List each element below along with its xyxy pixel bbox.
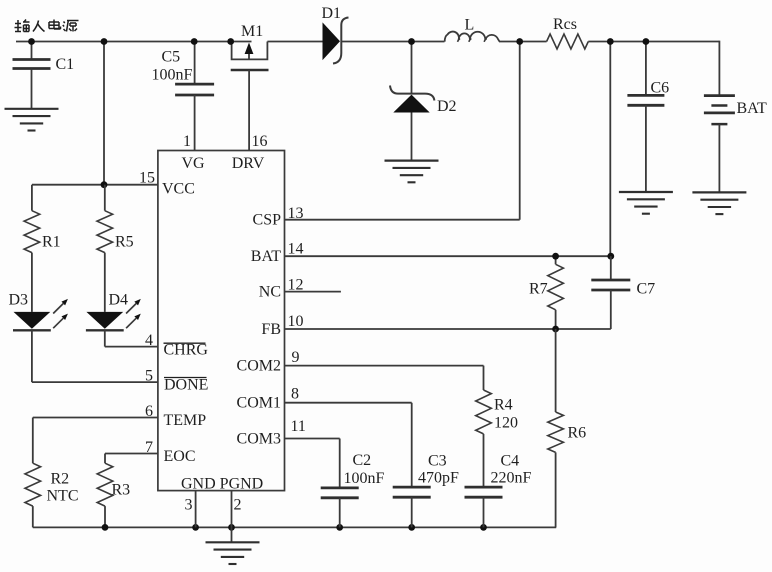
svg-text:16: 16 xyxy=(252,133,268,150)
svg-text:D2: D2 xyxy=(437,98,457,115)
svg-text:10: 10 xyxy=(288,313,304,330)
svg-text:11: 11 xyxy=(291,418,306,435)
svg-text:100nF: 100nF xyxy=(152,67,193,84)
svg-text:100nF: 100nF xyxy=(344,470,385,487)
svg-text:R3: R3 xyxy=(112,482,131,499)
svg-text:BAT: BAT xyxy=(251,248,281,265)
svg-text:8: 8 xyxy=(291,386,299,403)
svg-text:COM2: COM2 xyxy=(237,357,281,374)
svg-text:D3: D3 xyxy=(9,292,29,309)
svg-text:1: 1 xyxy=(183,133,191,150)
svg-text:VCC: VCC xyxy=(162,181,195,198)
svg-text:R4: R4 xyxy=(494,397,513,414)
svg-text:120: 120 xyxy=(494,415,518,432)
svg-text:NC: NC xyxy=(259,283,281,300)
svg-text:3: 3 xyxy=(185,497,193,514)
svg-text:R5: R5 xyxy=(115,234,134,251)
svg-text:220nF: 220nF xyxy=(491,470,532,487)
svg-text:D4: D4 xyxy=(109,292,129,309)
svg-text:R6: R6 xyxy=(568,425,587,442)
svg-text:C4: C4 xyxy=(501,453,520,470)
svg-text:C7: C7 xyxy=(637,281,656,298)
svg-text:R1: R1 xyxy=(42,234,61,251)
svg-text:D1: D1 xyxy=(322,5,342,22)
svg-text:VG: VG xyxy=(181,155,205,172)
svg-text:R7: R7 xyxy=(529,281,548,298)
svg-text:TEMP: TEMP xyxy=(164,412,207,429)
svg-text:DRV: DRV xyxy=(232,155,265,172)
svg-text:EOC: EOC xyxy=(164,448,196,465)
svg-text:COM3: COM3 xyxy=(237,430,281,447)
svg-text:NTC: NTC xyxy=(47,488,79,505)
svg-text:M1: M1 xyxy=(241,23,263,40)
svg-text:9: 9 xyxy=(292,349,300,366)
svg-text:L: L xyxy=(465,17,475,34)
svg-text:COM1: COM1 xyxy=(237,395,281,412)
svg-text:C2: C2 xyxy=(353,452,372,469)
svg-text:C3: C3 xyxy=(428,453,447,470)
svg-text:C5: C5 xyxy=(162,49,181,66)
svg-text:C6: C6 xyxy=(651,80,670,97)
svg-text:GND PGND: GND PGND xyxy=(181,476,263,493)
svg-text:DONE: DONE xyxy=(164,377,208,394)
svg-text:C1: C1 xyxy=(56,56,75,73)
svg-text:14: 14 xyxy=(288,241,304,258)
svg-text:CSP: CSP xyxy=(253,212,282,229)
svg-text:BAT: BAT xyxy=(737,100,767,117)
svg-text:2: 2 xyxy=(234,497,242,514)
svg-text:FB: FB xyxy=(261,321,281,338)
svg-text:470pF: 470pF xyxy=(418,470,459,487)
svg-text:R2: R2 xyxy=(51,471,70,488)
svg-text:Rcs: Rcs xyxy=(553,16,577,33)
